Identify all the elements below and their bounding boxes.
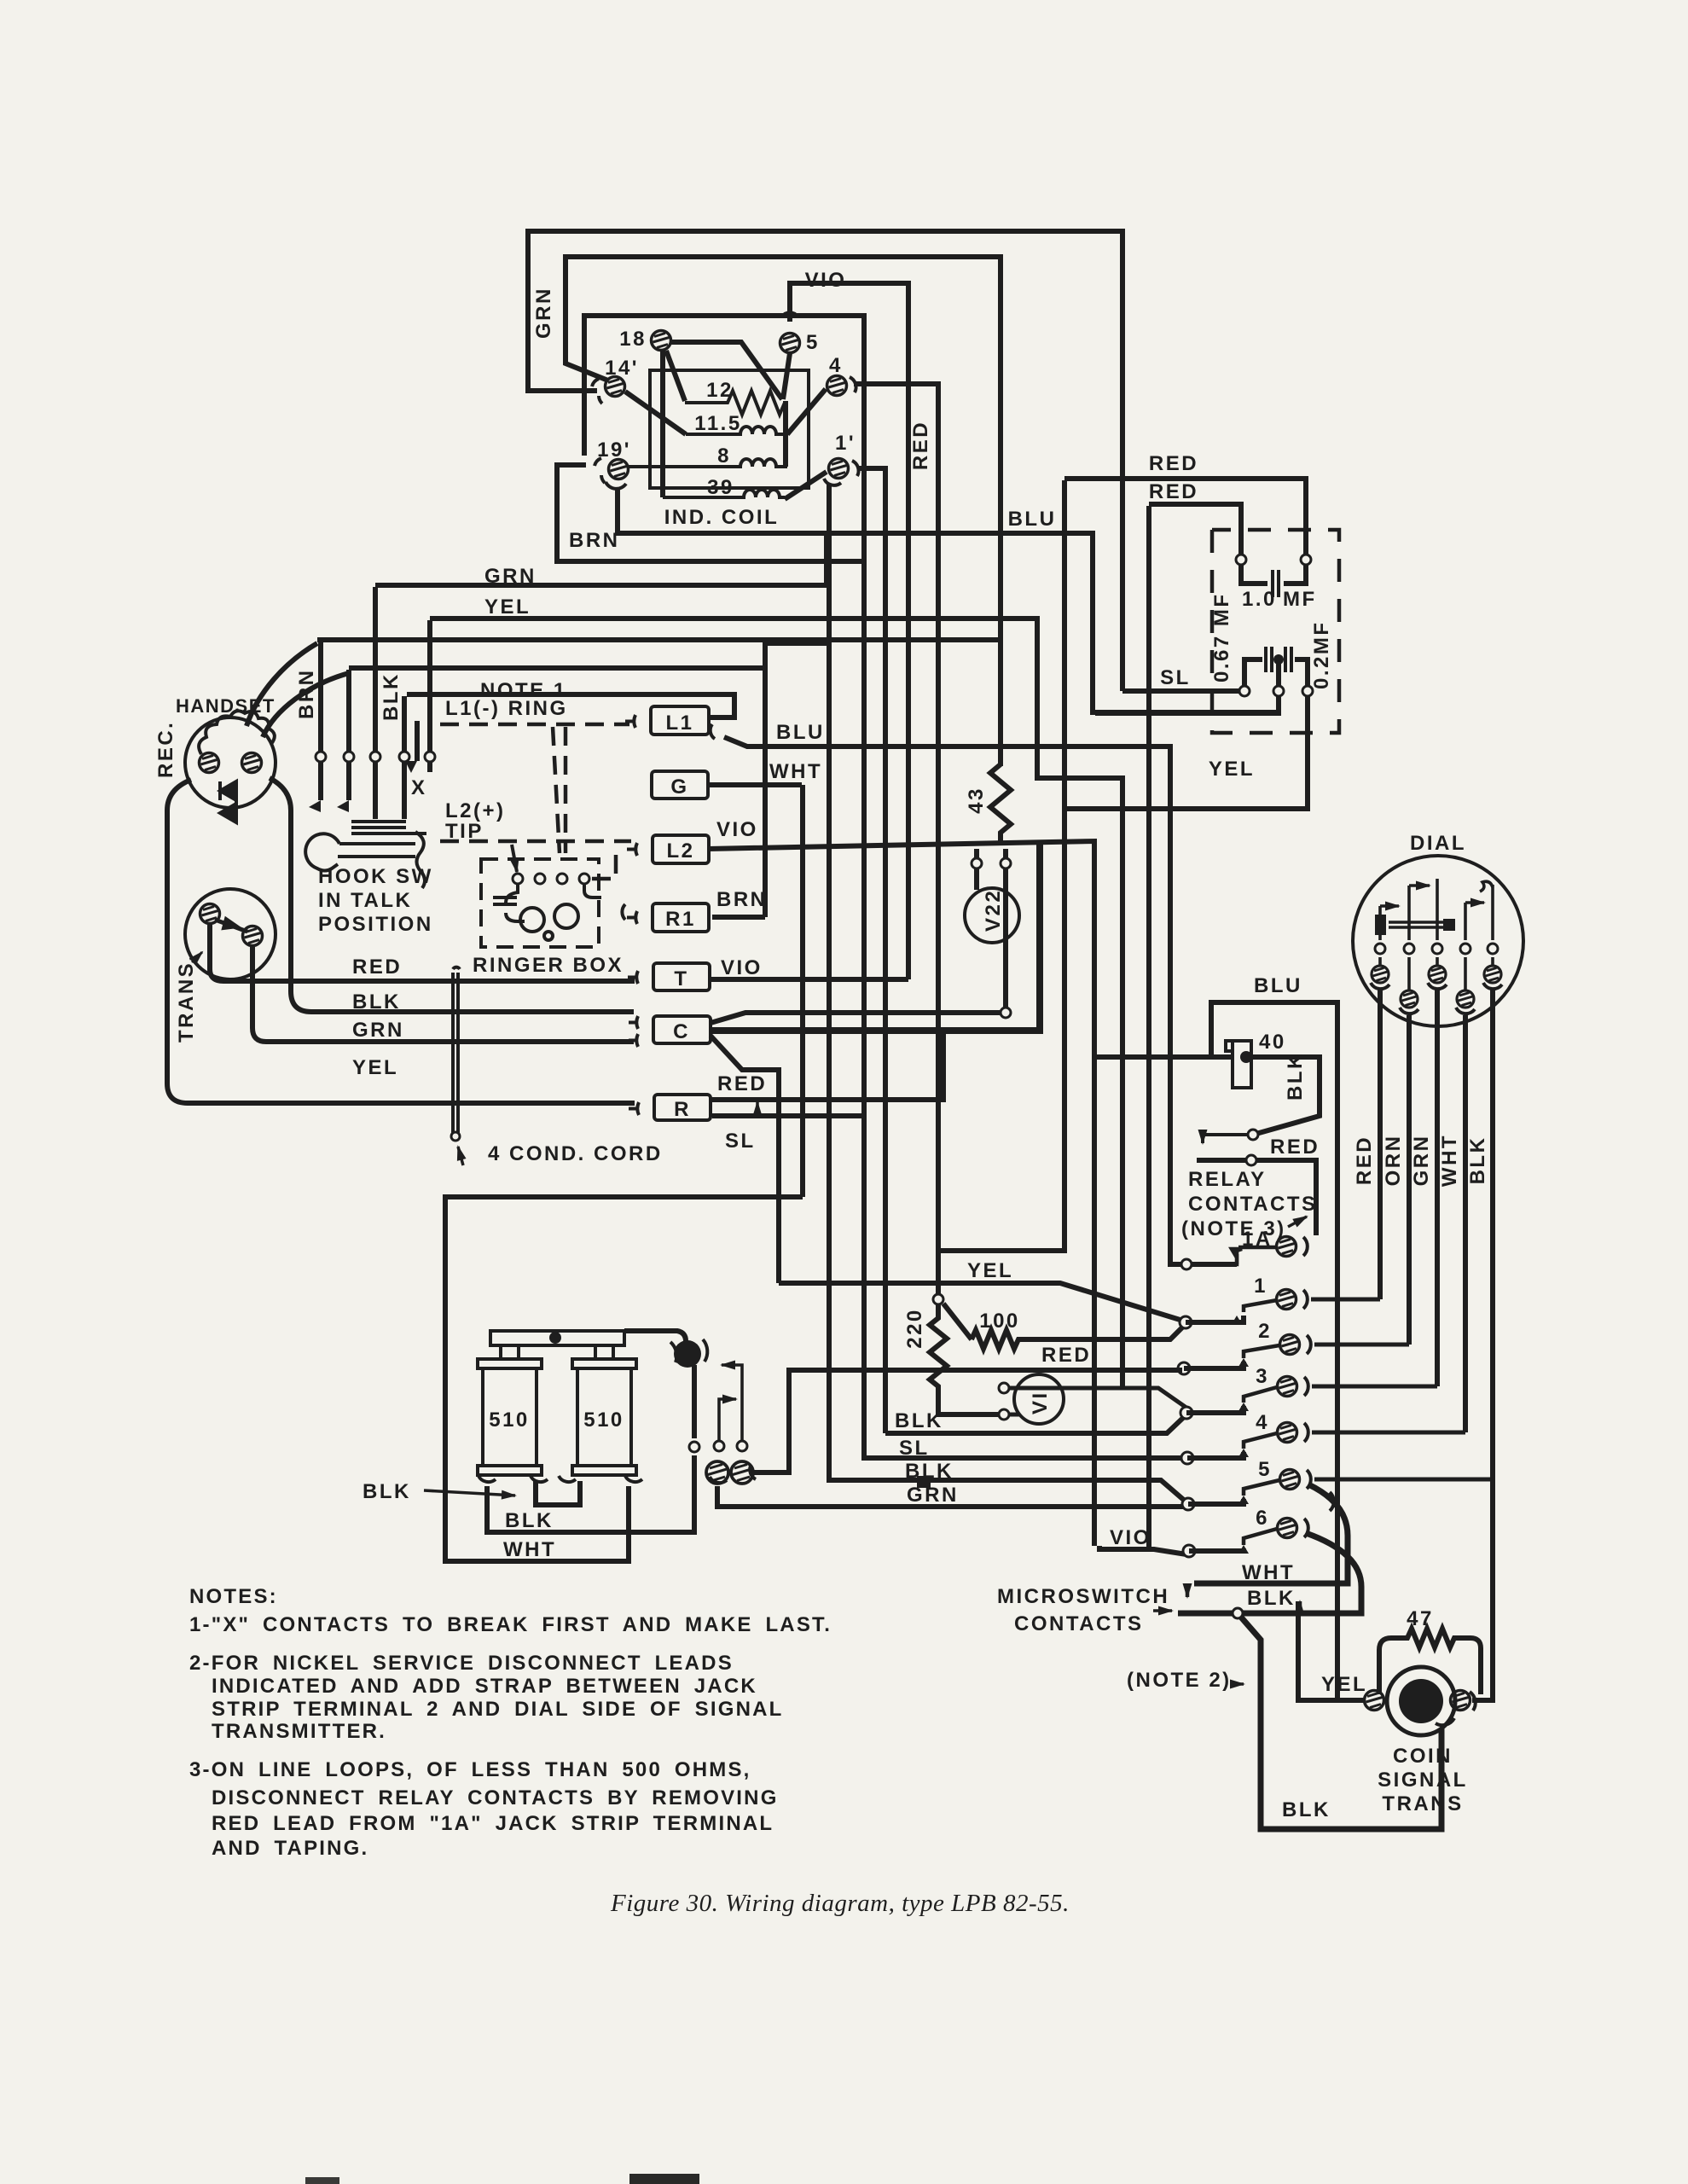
svg-text:0.67 MF: 0.67 MF (1210, 592, 1233, 682)
svg-text:RED: RED (1270, 1136, 1320, 1159)
svg-text:RED: RED (352, 955, 402, 979)
svg-text:2: 2 (1258, 1320, 1272, 1343)
svg-text:MF: MF (1283, 588, 1317, 611)
svg-text:43: 43 (965, 787, 988, 814)
svg-text:Figure 30. Wiring diagram, ty: Figure 30. Wiring diagram, type LPB 82-5… (610, 1890, 1070, 1917)
svg-text:WHT: WHT (769, 760, 822, 783)
svg-text:BLK: BLK (1284, 1052, 1307, 1101)
svg-text:HOOK SW: HOOK SW (318, 865, 433, 888)
svg-text:HANDSET: HANDSET (176, 695, 276, 717)
svg-text:R1: R1 (665, 908, 696, 931)
svg-text:RELAY: RELAY (1188, 1168, 1267, 1191)
svg-text:GRN: GRN (1410, 1135, 1433, 1187)
svg-text:IN TALK: IN TALK (318, 889, 412, 912)
svg-text:12: 12 (706, 379, 734, 402)
svg-text:4 COND. CORD: 4 COND. CORD (488, 1142, 663, 1165)
svg-text:BLK: BLK (380, 672, 403, 721)
svg-text:BLU: BLU (1008, 508, 1057, 531)
svg-text:YEL: YEL (484, 595, 531, 619)
svg-text:0.2MF: 0.2MF (1310, 620, 1333, 689)
svg-text:WHT: WHT (1242, 1561, 1295, 1584)
svg-text:DISCONNECT RELAY CONTACTS BY R: DISCONNECT RELAY CONTACTS BY REMOVING (212, 1786, 779, 1809)
svg-text:WHT: WHT (503, 1538, 556, 1561)
svg-text:SL: SL (899, 1437, 930, 1460)
svg-text:18: 18 (619, 328, 647, 351)
svg-text:BLK: BLK (905, 1460, 954, 1483)
svg-text:DIAL: DIAL (1410, 832, 1466, 855)
svg-text:100: 100 (979, 1310, 1020, 1333)
svg-text:TRANSMITTER.: TRANSMITTER. (212, 1720, 386, 1743)
svg-text:L1(-) RING: L1(-) RING (445, 697, 568, 720)
svg-text:AND TAPING.: AND TAPING. (212, 1837, 368, 1860)
svg-text:1-"X" CONTACTS TO BREAK FIRST: 1-"X" CONTACTS TO BREAK FIRST AND MAKE L… (189, 1613, 832, 1636)
svg-text:11.5: 11.5 (694, 412, 741, 435)
svg-text:GRN: GRN (352, 1019, 404, 1042)
svg-text:BLK: BLK (505, 1509, 554, 1532)
svg-text:5: 5 (806, 331, 820, 354)
svg-text:SL: SL (1160, 666, 1191, 689)
svg-text:C: C (673, 1020, 690, 1043)
svg-text:1': 1' (835, 432, 856, 455)
svg-text:BRN: BRN (569, 529, 620, 552)
svg-text:BLK: BLK (1466, 1136, 1489, 1185)
svg-text:RINGER BOX: RINGER BOX (473, 954, 624, 977)
svg-text:2-FOR NICKEL SERVICE DISCONNEC: 2-FOR NICKEL SERVICE DISCONNECT LEADS (189, 1652, 734, 1675)
svg-text:CONTACTS: CONTACTS (1014, 1612, 1144, 1635)
svg-text:RED: RED (1041, 1344, 1091, 1367)
svg-text:3-ON LINE LOOPS, OF LESS THAN: 3-ON LINE LOOPS, OF LESS THAN 500 OHMS, (189, 1758, 751, 1781)
svg-text:VIO: VIO (716, 818, 758, 841)
svg-text:(NOTE 2): (NOTE 2) (1127, 1669, 1232, 1692)
svg-text:IND. COIL: IND. COIL (664, 506, 780, 529)
svg-text:L2(+): L2(+) (445, 799, 506, 822)
svg-text:510: 510 (489, 1409, 530, 1432)
svg-text:MICROSWITCH: MICROSWITCH (997, 1585, 1169, 1608)
svg-text:BLK: BLK (363, 1480, 411, 1503)
svg-text:4: 4 (1256, 1411, 1269, 1434)
svg-text:RED: RED (717, 1072, 767, 1095)
svg-text:39: 39 (707, 476, 734, 499)
svg-text:WHT: WHT (1438, 1134, 1461, 1187)
svg-text:40: 40 (1259, 1031, 1286, 1054)
svg-text:VII: VII (1029, 1383, 1052, 1414)
svg-text:TRANS.: TRANS. (175, 954, 198, 1043)
svg-text:GRN: GRN (907, 1484, 959, 1507)
svg-text:YEL: YEL (1321, 1673, 1367, 1696)
svg-text:L1: L1 (665, 712, 693, 735)
svg-text:RED: RED (909, 421, 932, 470)
svg-text:14': 14' (605, 357, 639, 380)
svg-text:220: 220 (903, 1308, 926, 1349)
svg-text:3: 3 (1256, 1365, 1269, 1388)
svg-text:R: R (674, 1098, 691, 1121)
svg-text:SL: SL (725, 1130, 756, 1153)
svg-text:INDICATED AND ADD STRAP BETWEE: INDICATED AND ADD STRAP BETWEEN JACK (212, 1675, 757, 1698)
svg-text:VIO: VIO (1110, 1526, 1151, 1549)
svg-text:BLK: BLK (895, 1409, 943, 1432)
svg-text:BLK: BLK (1247, 1587, 1296, 1610)
svg-text:5: 5 (1258, 1458, 1272, 1481)
svg-text:BLU: BLU (1254, 974, 1302, 997)
svg-text:STRIP TERMINAL 2 AND DIAL SIDE: STRIP TERMINAL 2 AND DIAL SIDE OF SIGNAL (212, 1698, 784, 1721)
svg-text:BLU: BLU (776, 721, 825, 744)
svg-text:4: 4 (829, 354, 843, 377)
svg-text:REC.: REC. (154, 721, 177, 778)
svg-text:RED: RED (1149, 452, 1198, 475)
svg-text:X: X (411, 776, 427, 799)
svg-text:YEL: YEL (352, 1056, 398, 1079)
svg-text:T: T (674, 967, 688, 990)
svg-text:CONTACTS: CONTACTS (1188, 1193, 1318, 1216)
svg-text:ORN: ORN (1382, 1135, 1405, 1187)
svg-text:YEL: YEL (967, 1259, 1013, 1282)
svg-text:1.0: 1.0 (1242, 588, 1277, 611)
svg-text:BLK: BLK (352, 990, 401, 1014)
svg-text:6: 6 (1256, 1507, 1269, 1530)
svg-text:BRN: BRN (295, 669, 318, 720)
svg-text:BLK: BLK (1282, 1798, 1331, 1821)
svg-text:L2: L2 (666, 839, 694, 863)
svg-text:1: 1 (1254, 1275, 1267, 1298)
svg-text:510: 510 (583, 1409, 624, 1432)
svg-text:VIO: VIO (721, 956, 763, 979)
svg-text:NOTES:: NOTES: (189, 1585, 278, 1608)
svg-text:BRN: BRN (716, 888, 768, 911)
svg-text:8: 8 (717, 444, 731, 468)
svg-text:RED: RED (1353, 1136, 1376, 1185)
svg-text:YEL: YEL (1209, 758, 1255, 781)
svg-text:RED LEAD FROM "1A" JACK STRIP: RED LEAD FROM "1A" JACK STRIP TERMINAL (212, 1812, 774, 1835)
svg-text:SIGNAL: SIGNAL (1378, 1769, 1468, 1792)
svg-text:POSITION: POSITION (318, 913, 433, 936)
svg-text:GRN: GRN (532, 287, 555, 339)
svg-text:RED: RED (1149, 480, 1198, 503)
svg-text:G: G (670, 775, 688, 799)
svg-text:19': 19' (597, 439, 631, 462)
svg-text:V22: V22 (982, 889, 1005, 932)
svg-text:47: 47 (1407, 1607, 1434, 1630)
svg-text:TRANS: TRANS (1382, 1792, 1463, 1815)
svg-text:VIO: VIO (805, 269, 847, 292)
svg-text:COIN: COIN (1393, 1745, 1453, 1768)
